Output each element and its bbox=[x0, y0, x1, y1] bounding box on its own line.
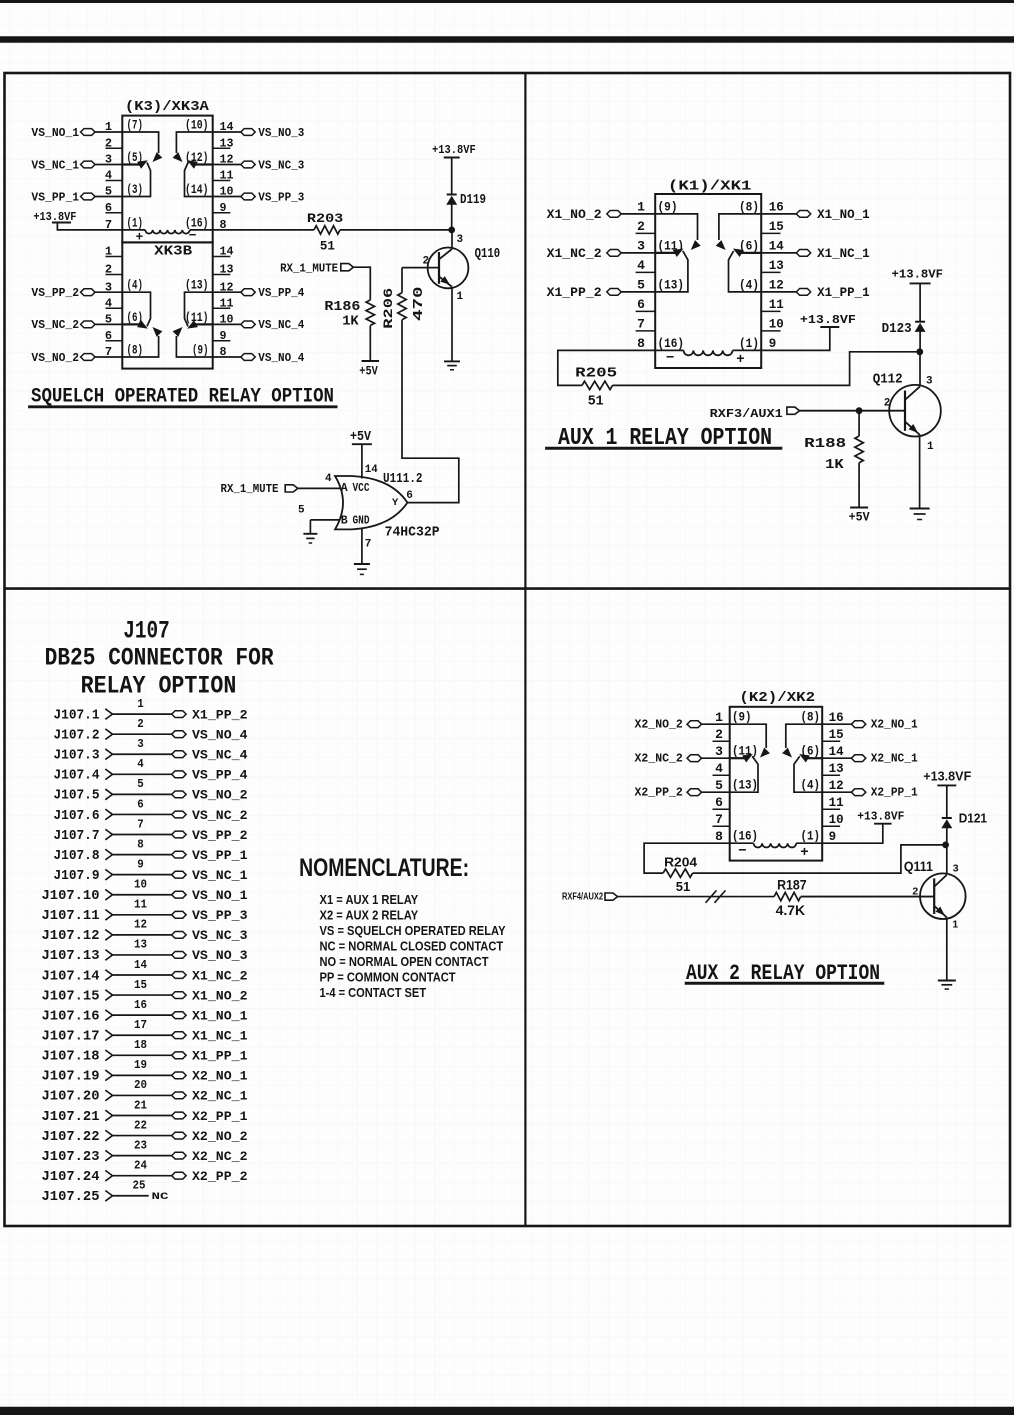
svg-text:NC = NORMAL CLOSED CONTACT: NC = NORMAL CLOSED CONTACT bbox=[320, 939, 504, 954]
svg-text:J107.3: J107.3 bbox=[54, 749, 100, 764]
wire K1 coil to R205 bbox=[558, 350, 655, 385]
svg-text:X1_NC_2: X1_NC_2 bbox=[192, 968, 248, 983]
svg-text:7: 7 bbox=[137, 817, 144, 831]
svg-text:X1_NO_1: X1_NO_1 bbox=[817, 208, 870, 222]
svg-text:−: − bbox=[738, 844, 746, 860]
terminal VS_PP_4 bbox=[213, 286, 305, 300]
svg-text:J107.25: J107.25 bbox=[42, 1190, 100, 1205]
svg-text:DB25 CONNECTOR FOR: DB25 CONNECTOR FOR bbox=[45, 644, 274, 673]
svg-text:X1_PP_1: X1_PP_1 bbox=[817, 286, 870, 300]
svg-text:13: 13 bbox=[829, 761, 844, 776]
terminal VS_NC_2 bbox=[31, 318, 122, 332]
resistor R204 bbox=[663, 854, 698, 894]
svg-text:15: 15 bbox=[134, 978, 147, 992]
svg-text:X2_PP_1: X2_PP_1 bbox=[871, 785, 918, 799]
svg-text:X2_NC_2: X2_NC_2 bbox=[635, 751, 683, 765]
connector pin J107.3 bbox=[54, 737, 248, 764]
svg-text:2: 2 bbox=[637, 219, 645, 234]
svg-text:A: A bbox=[341, 482, 348, 495]
svg-text:5: 5 bbox=[298, 505, 305, 517]
svg-text:1K: 1K bbox=[825, 457, 844, 473]
wire R205 to Q112 collector node bbox=[613, 352, 920, 386]
diode D123 bbox=[882, 322, 926, 352]
svg-text:(3): (3) bbox=[127, 183, 144, 197]
svg-text:+: + bbox=[800, 845, 808, 861]
svg-text:RX_1_MUTE: RX_1_MUTE bbox=[280, 262, 338, 276]
svg-text:VS_NO_4: VS_NO_4 bbox=[258, 351, 304, 365]
svg-text:5: 5 bbox=[137, 777, 144, 791]
connector pin J107.19 bbox=[42, 1058, 248, 1085]
svg-text:VS_NC_4: VS_NC_4 bbox=[258, 318, 304, 332]
svg-text:J107.2: J107.2 bbox=[54, 728, 100, 743]
svg-text:12: 12 bbox=[829, 778, 844, 793]
svg-text:13: 13 bbox=[134, 938, 147, 952]
svg-text:(4): (4) bbox=[739, 277, 759, 292]
power +13.8VF (K1 coil) bbox=[761, 313, 856, 351]
wire Q110 base to R206 bbox=[402, 267, 439, 269]
resistor R187 bbox=[774, 877, 807, 918]
connector pin J107.1 bbox=[54, 697, 248, 724]
svg-text:X1_PP_1: X1_PP_1 bbox=[192, 1049, 248, 1064]
terminal VS_NC_3 bbox=[213, 158, 305, 172]
terminal VS_NO_4 bbox=[213, 351, 305, 365]
svg-text:X1_NO_2: X1_NO_2 bbox=[192, 988, 248, 1003]
connector pin J107.4 bbox=[54, 757, 248, 784]
svg-text:(14): (14) bbox=[185, 183, 209, 197]
net RXF3/AUX1 bbox=[710, 407, 905, 421]
XK3B right pin ladder bbox=[213, 245, 234, 360]
svg-text:U111.2: U111.2 bbox=[383, 472, 423, 487]
svg-text:X1_NO_1: X1_NO_1 bbox=[192, 1008, 248, 1023]
svg-text:4: 4 bbox=[325, 473, 332, 485]
svg-text:+13.8VF: +13.8VF bbox=[432, 143, 476, 157]
svg-text:J107.14: J107.14 bbox=[42, 969, 100, 984]
svg-text:(13): (13) bbox=[732, 779, 758, 793]
svg-text:21: 21 bbox=[134, 1098, 147, 1112]
svg-text:R203: R203 bbox=[307, 211, 344, 226]
svg-text:8: 8 bbox=[715, 829, 723, 844]
terminal X2_PP_1 bbox=[822, 785, 918, 799]
terminal VS_PP_3 bbox=[213, 190, 305, 204]
svg-text:(4): (4) bbox=[127, 279, 144, 293]
svg-text:J107.1: J107.1 bbox=[54, 708, 100, 723]
connector pin J107.7 bbox=[54, 817, 248, 844]
XK2 contact set right bbox=[782, 724, 822, 792]
svg-text:14: 14 bbox=[134, 958, 147, 972]
svg-text:4: 4 bbox=[637, 258, 645, 273]
svg-text:1-4 = CONTACT SET: 1-4 = CONTACT SET bbox=[320, 985, 427, 1000]
terminal X1_NC_1 bbox=[761, 247, 869, 261]
relay K2 coil bbox=[730, 843, 823, 861]
svg-text:5: 5 bbox=[637, 278, 645, 293]
svg-text:11: 11 bbox=[134, 898, 147, 912]
svg-text:(8): (8) bbox=[801, 711, 821, 725]
svg-text:(9): (9) bbox=[192, 344, 209, 358]
svg-text:(1): (1) bbox=[739, 336, 759, 351]
svg-text:4.7K: 4.7K bbox=[776, 903, 806, 918]
node R188 base junction bbox=[856, 407, 863, 414]
svg-text:18: 18 bbox=[134, 1038, 147, 1052]
svg-text:4: 4 bbox=[137, 757, 144, 771]
svg-text:23: 23 bbox=[134, 1138, 147, 1152]
power +13.8VF (K3 coil) bbox=[33, 210, 145, 230]
svg-text:7: 7 bbox=[715, 812, 723, 827]
svg-text:1K: 1K bbox=[342, 314, 359, 330]
svg-text:VS_PP_2: VS_PP_2 bbox=[31, 286, 79, 300]
XK3B contact set right (PP/NC/NO arms) bbox=[173, 292, 213, 357]
svg-text:19: 19 bbox=[134, 1058, 147, 1072]
XK2 contact set left bbox=[730, 724, 770, 792]
power +13.8VF (K2 coil) bbox=[822, 809, 904, 843]
connector pin J107.14 bbox=[42, 958, 248, 985]
svg-text:J107.20: J107.20 bbox=[42, 1090, 100, 1105]
title AUX 2 RELAY OPTION bbox=[685, 961, 885, 986]
net RX_1_MUTE (upper) bbox=[280, 262, 370, 301]
svg-text:GND: GND bbox=[353, 515, 370, 528]
svg-text:2: 2 bbox=[715, 727, 723, 742]
svg-text:NC: NC bbox=[152, 1191, 170, 1203]
svg-text:6: 6 bbox=[137, 797, 144, 811]
or-gate U111.2 body bbox=[335, 476, 407, 529]
svg-text:SQUELCH OPERATED RELAY OPTION: SQUELCH OPERATED RELAY OPTION bbox=[31, 386, 334, 409]
terminal X1_NC_2 bbox=[547, 247, 656, 261]
connector pin J107.2 bbox=[54, 717, 248, 744]
transistor Q110 bbox=[428, 248, 469, 289]
svg-text:8: 8 bbox=[637, 336, 645, 351]
wire K2 coil to R204 bbox=[644, 843, 730, 873]
svg-text:VS_PP_1: VS_PP_1 bbox=[31, 190, 79, 204]
XK2 inside contact pin labels bbox=[732, 711, 820, 844]
svg-text:VS_PP_3: VS_PP_3 bbox=[258, 190, 304, 204]
svg-text:VS_NC_1: VS_NC_1 bbox=[31, 158, 79, 172]
resistor R205 bbox=[575, 365, 617, 409]
svg-text:3: 3 bbox=[715, 744, 723, 759]
svg-text:1: 1 bbox=[715, 710, 723, 725]
svg-text:X2_NO_1: X2_NO_1 bbox=[192, 1069, 248, 1084]
connector pin J107.15 bbox=[42, 978, 248, 1005]
svg-text:15: 15 bbox=[769, 219, 784, 234]
wire coil to R203 bbox=[190, 229, 314, 231]
XK1 left pin ladder bbox=[636, 200, 656, 352]
svg-text:11: 11 bbox=[829, 795, 844, 810]
svg-text:14: 14 bbox=[829, 744, 844, 759]
connector J107 heading bbox=[45, 617, 274, 701]
svg-text:R204: R204 bbox=[664, 854, 698, 869]
net RX_1_MUTE (gate input A) bbox=[221, 482, 341, 496]
terminal X2_NC_1 bbox=[822, 751, 918, 765]
svg-text:X1_NC_1: X1_NC_1 bbox=[192, 1029, 248, 1044]
gate input B wire and ground bbox=[310, 520, 340, 534]
connector pin J107.10 bbox=[42, 878, 248, 905]
svg-text:12: 12 bbox=[769, 278, 784, 293]
svg-text:6: 6 bbox=[637, 297, 645, 312]
connector pin J107.24 bbox=[42, 1159, 248, 1186]
svg-text:7: 7 bbox=[637, 317, 645, 332]
power +5V (R188) bbox=[849, 508, 870, 525]
XK2 left pin ladder bbox=[713, 710, 730, 844]
terminal X2_PP_2 bbox=[635, 785, 730, 799]
svg-text:VS_NO_3: VS_NO_3 bbox=[258, 126, 304, 140]
svg-text:RXF3/AUX1: RXF3/AUX1 bbox=[710, 407, 783, 421]
svg-text:J107.22: J107.22 bbox=[42, 1130, 100, 1145]
svg-text:NO = NORMAL OPEN CONTACT: NO = NORMAL OPEN CONTACT bbox=[320, 954, 489, 969]
svg-text:(11): (11) bbox=[185, 311, 209, 325]
svg-text:X1_NO_2: X1_NO_2 bbox=[547, 208, 602, 222]
ground (Q110 emitter) bbox=[444, 360, 460, 362]
svg-text:J107.21: J107.21 bbox=[42, 1110, 100, 1125]
svg-text:VS = SQUELCH OPERATED RELAY: VS = SQUELCH OPERATED RELAY bbox=[320, 923, 506, 938]
svg-text:(8): (8) bbox=[127, 344, 144, 358]
terminal X1_PP_2 bbox=[547, 286, 656, 300]
svg-text:+5V: +5V bbox=[849, 510, 870, 525]
svg-text:J107.12: J107.12 bbox=[42, 929, 100, 944]
terminal X2_NO_2 bbox=[635, 717, 730, 731]
XK3A left pin ladder bbox=[105, 120, 122, 232]
svg-text:NOMENCLATURE:: NOMENCLATURE: bbox=[299, 854, 469, 882]
svg-text:9: 9 bbox=[829, 829, 837, 844]
resistor R186 bbox=[324, 299, 374, 361]
svg-text:1: 1 bbox=[637, 200, 645, 215]
svg-text:8: 8 bbox=[137, 837, 144, 851]
resistor R203 bbox=[307, 211, 344, 254]
connector pin J107.21 bbox=[42, 1098, 248, 1125]
connector pin J107.20 bbox=[42, 1078, 248, 1105]
XK2 right pin ladder bbox=[822, 710, 844, 844]
svg-text:VS_NC_1: VS_NC_1 bbox=[192, 868, 248, 883]
svg-text:2: 2 bbox=[884, 398, 891, 410]
svg-text:J107.5: J107.5 bbox=[54, 789, 100, 804]
svg-text:3: 3 bbox=[926, 376, 933, 388]
connector pin J107.5 bbox=[54, 777, 248, 804]
svg-text:X2_PP_2: X2_PP_2 bbox=[192, 1169, 248, 1184]
svg-text:VS_NC_4: VS_NC_4 bbox=[192, 748, 248, 763]
connector pin J107.18 bbox=[42, 1038, 248, 1065]
svg-text:J107.24: J107.24 bbox=[42, 1170, 100, 1185]
svg-text:X2_NC_1: X2_NC_1 bbox=[871, 751, 918, 765]
svg-text:VS_NO_1: VS_NO_1 bbox=[31, 126, 79, 140]
relay K3 coil XK3A bbox=[135, 228, 196, 244]
wire Q110 emitter to ground bbox=[451, 288, 453, 361]
svg-text:(K1)/XK1: (K1)/XK1 bbox=[668, 178, 752, 194]
wire Q112 emitter to ground bbox=[919, 436, 921, 508]
svg-text:15: 15 bbox=[829, 727, 844, 742]
title SQUELCH OPERATED RELAY OPTION bbox=[28, 386, 337, 409]
terminal X2_NC_2 bbox=[635, 751, 730, 765]
svg-text:6: 6 bbox=[406, 490, 413, 502]
svg-text:+13.8VF: +13.8VF bbox=[800, 313, 856, 327]
relay XK3A box bbox=[122, 116, 212, 243]
connector pin J107.8 bbox=[54, 837, 248, 864]
svg-text:10: 10 bbox=[829, 812, 844, 827]
svg-text:(9): (9) bbox=[658, 199, 678, 214]
svg-text:X2_NC_2: X2_NC_2 bbox=[192, 1149, 248, 1164]
svg-text:R206: R206 bbox=[381, 287, 396, 328]
connector pin J107.23 bbox=[42, 1138, 248, 1165]
relay XK3B box bbox=[122, 242, 212, 368]
svg-text:14: 14 bbox=[769, 239, 784, 254]
svg-text:X2_NO_2: X2_NO_2 bbox=[192, 1129, 248, 1144]
svg-text:J107.18: J107.18 bbox=[42, 1050, 100, 1065]
gate GND pin wire bbox=[361, 529, 363, 565]
wire R203 to Q110 collector node bbox=[340, 229, 452, 231]
XK3A inside contact pin labels bbox=[127, 119, 209, 231]
connector pin J107.9 bbox=[54, 857, 248, 884]
svg-text:VS_NO_4: VS_NO_4 bbox=[192, 727, 248, 742]
svg-text:VCC: VCC bbox=[353, 482, 370, 495]
svg-text:3: 3 bbox=[953, 863, 959, 875]
svg-text:6: 6 bbox=[715, 795, 723, 810]
svg-text:VS_NC_3: VS_NC_3 bbox=[258, 158, 304, 172]
svg-text:24: 24 bbox=[134, 1159, 147, 1173]
XK3B left pin ladder bbox=[105, 245, 122, 360]
resistor R188 bbox=[804, 411, 863, 508]
terminal X1_NO_1 bbox=[761, 208, 869, 222]
terminal VS_PP_1 bbox=[31, 190, 122, 204]
svg-text:X1_NC_1: X1_NC_1 bbox=[817, 247, 870, 261]
svg-text:VS_NC_3: VS_NC_3 bbox=[192, 928, 248, 943]
terminal VS_NO_1 bbox=[31, 126, 122, 140]
svg-text:(K2)/XK2: (K2)/XK2 bbox=[739, 690, 815, 706]
svg-text:4: 4 bbox=[715, 761, 723, 776]
diode D119 bbox=[446, 193, 486, 230]
svg-text:J107.13: J107.13 bbox=[42, 949, 100, 964]
svg-text:7: 7 bbox=[365, 539, 372, 551]
svg-text:J107.11: J107.11 bbox=[42, 909, 100, 924]
svg-text:VS_PP_3: VS_PP_3 bbox=[192, 908, 248, 923]
wire break hash marks bbox=[706, 890, 726, 902]
svg-text:12: 12 bbox=[134, 918, 147, 932]
terminal X1_NO_2 bbox=[547, 208, 656, 222]
svg-text:VS_PP_2: VS_PP_2 bbox=[192, 828, 248, 843]
svg-text:J107.6: J107.6 bbox=[54, 809, 100, 824]
svg-text:X2_PP_1: X2_PP_1 bbox=[192, 1109, 248, 1124]
svg-text:+13.8VF: +13.8VF bbox=[923, 768, 971, 783]
svg-text:J107.15: J107.15 bbox=[42, 989, 100, 1004]
svg-text:+: + bbox=[135, 229, 143, 244]
svg-text:9: 9 bbox=[137, 857, 144, 871]
svg-text:−: − bbox=[666, 351, 674, 367]
svg-text:VS_PP_1: VS_PP_1 bbox=[192, 848, 248, 863]
XK3B contact set left (PP/NC/NO arms) bbox=[123, 292, 163, 357]
XK3A contact set right (NO/NC/PP arms) bbox=[173, 132, 213, 197]
node Q110 collector junction bbox=[448, 227, 455, 234]
relay K1 coil bbox=[655, 350, 761, 368]
ground (gate pin 7) bbox=[354, 563, 370, 565]
terminal X1_PP_1 bbox=[761, 286, 869, 300]
svg-text:16: 16 bbox=[829, 710, 844, 725]
svg-text:+5V: +5V bbox=[359, 363, 378, 378]
svg-text:16: 16 bbox=[134, 998, 147, 1012]
XK1 right pin ladder bbox=[761, 200, 784, 352]
svg-text:X1_PP_2: X1_PP_2 bbox=[547, 286, 602, 300]
wire R187 to Q111 base bbox=[801, 896, 935, 898]
svg-text:J107: J107 bbox=[123, 617, 170, 646]
svg-text:+13.8VF: +13.8VF bbox=[857, 809, 904, 823]
svg-text:3: 3 bbox=[457, 234, 464, 246]
wire R206 to OR gate output bbox=[402, 320, 459, 503]
svg-text:17: 17 bbox=[134, 1018, 147, 1032]
svg-text:2: 2 bbox=[137, 717, 144, 731]
svg-text:(13): (13) bbox=[185, 279, 209, 293]
connector pin J107.6 bbox=[54, 797, 248, 824]
svg-text:+: + bbox=[736, 352, 744, 368]
svg-text:X2 = AUX 2 RELAY: X2 = AUX 2 RELAY bbox=[320, 908, 419, 923]
XK1 contact set right bbox=[716, 214, 761, 292]
svg-text:D119: D119 bbox=[460, 193, 486, 208]
svg-text:14: 14 bbox=[365, 464, 378, 476]
connector pin J107.16 bbox=[42, 998, 248, 1024]
svg-text:(10): (10) bbox=[185, 119, 209, 133]
connector pin J107.12 bbox=[42, 918, 248, 945]
XK3A contact set left (NO/NC/PP arms) bbox=[123, 132, 163, 197]
svg-text:11: 11 bbox=[769, 297, 784, 312]
svg-text:RELAY OPTION: RELAY OPTION bbox=[81, 672, 237, 701]
svg-text:+5V: +5V bbox=[350, 430, 372, 445]
power +13.8VF (D123) bbox=[892, 267, 944, 321]
svg-text:(1): (1) bbox=[127, 216, 144, 230]
svg-text:X2_NO_2: X2_NO_2 bbox=[635, 717, 683, 731]
svg-text:VS_NO_2: VS_NO_2 bbox=[192, 788, 248, 803]
svg-text:(1): (1) bbox=[801, 830, 821, 844]
svg-text:1: 1 bbox=[457, 291, 464, 303]
svg-text:R205: R205 bbox=[575, 365, 617, 381]
transistor Q112 bbox=[889, 385, 941, 437]
svg-text:(13): (13) bbox=[658, 277, 685, 292]
XK3A right pin ladder bbox=[213, 120, 234, 232]
ground (Q112 emitter) bbox=[910, 508, 930, 510]
power +5V (U111.2 VCC) bbox=[350, 430, 372, 479]
svg-text:VS_NO_2: VS_NO_2 bbox=[31, 351, 79, 365]
ground (gate input B) bbox=[303, 533, 317, 535]
terminal VS_NO_3 bbox=[213, 126, 305, 140]
svg-text:X2_PP_2: X2_PP_2 bbox=[635, 785, 683, 799]
gate inside labels A VCC B GND Y bbox=[341, 482, 399, 528]
svg-text:2: 2 bbox=[423, 256, 430, 268]
svg-text:RXF4/AUX2: RXF4/AUX2 bbox=[562, 891, 603, 903]
svg-text:VS_NO_1: VS_NO_1 bbox=[192, 888, 248, 903]
wire Q111 emitter to ground bbox=[946, 919, 948, 981]
svg-text:(8): (8) bbox=[739, 199, 759, 214]
svg-text:J107.10: J107.10 bbox=[42, 889, 100, 904]
svg-text:B: B bbox=[341, 515, 348, 528]
svg-text:VS_NO_3: VS_NO_3 bbox=[192, 948, 248, 963]
resistor R206 bbox=[381, 268, 427, 329]
svg-text:3: 3 bbox=[637, 239, 645, 254]
svg-text:Q110: Q110 bbox=[475, 246, 501, 262]
power +13.8VF (D121) bbox=[923, 768, 971, 818]
svg-text:(K3)/XK3A: (K3)/XK3A bbox=[125, 99, 210, 115]
node Q112 collector junction bbox=[916, 348, 923, 355]
power +13.8VF (D119) bbox=[432, 143, 476, 194]
XK1 contact set left bbox=[656, 214, 701, 292]
svg-text:X1 = AUX 1 RELAY: X1 = AUX 1 RELAY bbox=[320, 892, 419, 907]
svg-text:J107.17: J107.17 bbox=[42, 1030, 100, 1045]
svg-text:J107.7: J107.7 bbox=[54, 829, 100, 844]
svg-text:(16): (16) bbox=[732, 830, 758, 844]
title AUX 1 RELAY OPTION bbox=[545, 425, 782, 452]
svg-text:1: 1 bbox=[927, 441, 934, 453]
svg-text:(16): (16) bbox=[658, 336, 685, 351]
net RXF4/AUX2 bbox=[562, 891, 774, 903]
svg-text:22: 22 bbox=[134, 1118, 147, 1132]
svg-text:Q112: Q112 bbox=[873, 372, 903, 388]
svg-text:(9): (9) bbox=[732, 711, 752, 725]
svg-text:+13.8VF: +13.8VF bbox=[892, 267, 944, 281]
svg-text:10: 10 bbox=[134, 878, 147, 892]
relay XK2 box bbox=[730, 707, 823, 861]
terminal VS_PP_2 bbox=[31, 286, 122, 300]
terminal VS_NO_2 bbox=[31, 351, 122, 365]
